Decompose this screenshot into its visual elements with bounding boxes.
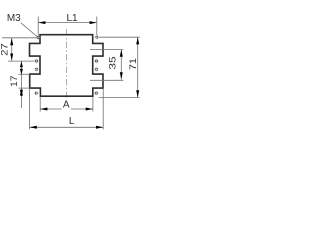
marker diamond mid-left-upper <box>34 59 38 63</box>
dim L1 arrow right <box>90 21 97 24</box>
dim L line <box>30 126 104 128</box>
svg-text:A: A <box>63 100 70 111</box>
dim 71 arrow bottom <box>136 90 139 97</box>
dim 17 arrow top <box>20 61 23 67</box>
dim 35 line <box>120 50 122 80</box>
leader M3 <box>21 23 37 37</box>
dim 27 line <box>11 38 13 61</box>
dim 71 extension top <box>99 36 140 38</box>
centerline <box>65 29 67 98</box>
dim L extension right <box>102 88 104 129</box>
marker diamond bottom-left <box>34 91 38 95</box>
dim 71 arrow top <box>136 37 139 44</box>
marker diamond mid-right-upper <box>94 59 98 63</box>
dim A arrow right <box>86 108 93 111</box>
flange-bottom extension left <box>19 87 30 89</box>
dim A extension left <box>39 97 41 112</box>
svg-text:L: L <box>69 116 75 127</box>
dim 27 arrow top <box>10 38 13 45</box>
marker diamond mid-right-lower <box>94 67 98 71</box>
dim 27 extension top <box>2 37 36 39</box>
svg-text:35: 35 <box>108 56 118 69</box>
dim A arrow left <box>40 108 47 111</box>
pin-length arrow up <box>20 88 23 95</box>
marker diamond bottom-right <box>94 91 98 95</box>
dim A line left segment <box>40 108 61 110</box>
dim A extension right <box>92 97 94 112</box>
dim L1 extension line left <box>37 17 39 36</box>
dim A line right segment <box>71 108 93 110</box>
dim 17 line <box>20 61 22 108</box>
pin-length arrow down <box>20 90 23 97</box>
marker diamond top-left <box>36 35 40 39</box>
svg-text:27: 27 <box>0 43 9 56</box>
dim L arrow right <box>96 126 103 129</box>
dim 27/17 shared extension at y61 <box>8 60 34 62</box>
dim L extension left <box>29 88 31 129</box>
dim L1 line <box>38 22 97 24</box>
dim 35 arrow bottom <box>120 72 123 79</box>
dim 35 extension bottom <box>90 79 123 81</box>
svg-text:71: 71 <box>128 58 138 70</box>
body outline <box>30 35 104 96</box>
dim 17 extension bottom <box>19 73 30 75</box>
dim L1 extension line right <box>96 17 98 36</box>
marker diamond mid-left-lower <box>34 67 38 71</box>
dim L arrow left <box>30 126 37 129</box>
dim 71 extension bottom <box>99 97 140 99</box>
svg-text:L1: L1 <box>66 13 78 24</box>
dim 35 extension top <box>90 49 123 51</box>
dim 17 arrow bottom <box>20 69 23 75</box>
svg-text:M3: M3 <box>7 13 21 24</box>
dim 71 line <box>137 37 139 97</box>
marker diamond top-right <box>95 35 99 39</box>
dim L1 arrow left <box>38 21 45 24</box>
dim 35 arrow top <box>120 50 123 57</box>
svg-text:17: 17 <box>8 76 19 87</box>
dim 27 arrow bottom <box>10 54 13 61</box>
